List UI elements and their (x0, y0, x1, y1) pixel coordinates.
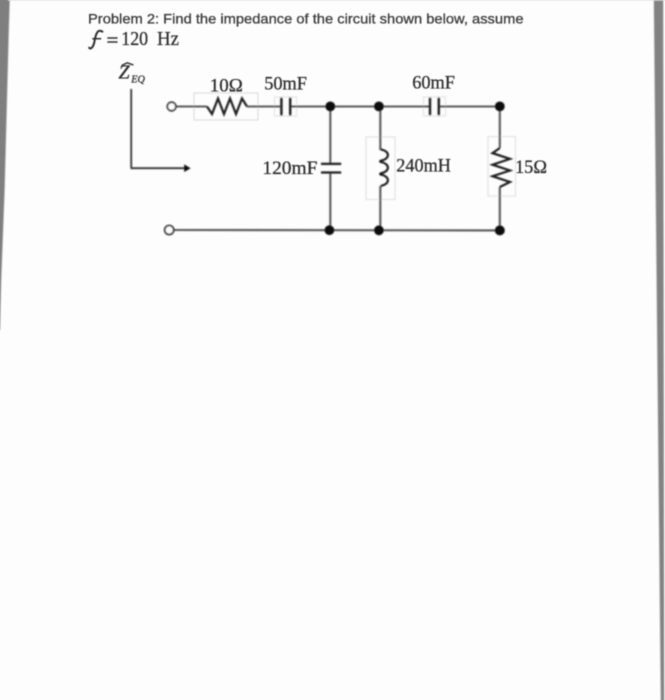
svg-text:240mH: 240mH (396, 156, 451, 177)
svg-text:Hz: Hz (157, 29, 179, 50)
svg-text:15Ω: 15Ω (515, 157, 547, 178)
svg-text:50mF: 50mF (264, 74, 307, 95)
svg-text:Problem 2: Find the impedance: Problem 2: Find the impedance of the cir… (88, 11, 524, 27)
svg-text:EQ: EQ (130, 75, 145, 86)
svg-text:120: 120 (121, 29, 148, 50)
svg-text:=: = (107, 31, 119, 52)
svg-text:120mF: 120mF (262, 158, 317, 179)
svg-text:60mF: 60mF (412, 73, 455, 94)
